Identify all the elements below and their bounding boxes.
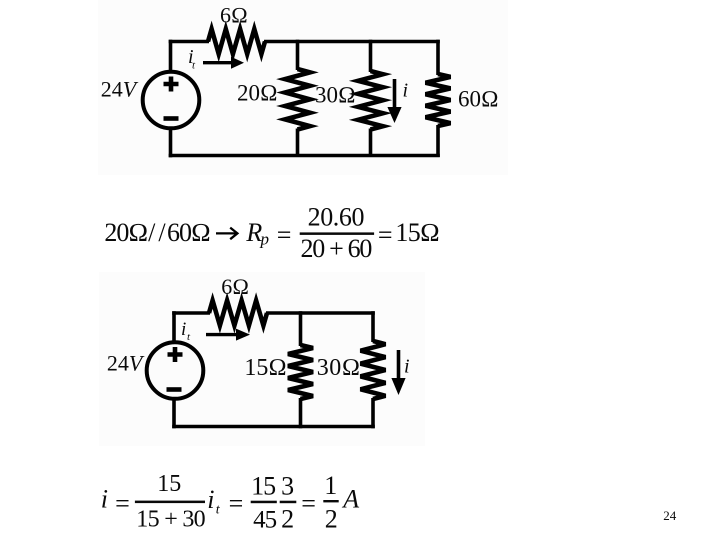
pasted image background (bottom circuit) [99, 272, 425, 446]
plus sign of source (top) [164, 77, 179, 92]
svg-text:t: t [187, 331, 191, 343]
svg-text:20.60: 20.60 [308, 202, 365, 231]
eq2 fraction bar 3 [280, 501, 297, 504]
wire: 15Ω branch lower lead [299, 398, 303, 428]
svg-text:A: A [341, 485, 359, 514]
wire: bottom rail [169, 154, 440, 158]
svg-text:24: 24 [663, 508, 677, 523]
wire: 60Ω branch upper lead [436, 40, 440, 75]
wire: 30Ω branch lower lead (bottom circuit) [371, 398, 375, 428]
eq2 fraction bar 4 [323, 500, 338, 502]
resistor 30Ω (bottom circuit) [361, 341, 386, 399]
voltage source 24V (top circuit) [143, 72, 200, 129]
svg-text:20Ω: 20Ω [237, 81, 278, 106]
wire: top-left vertical from source to top rail [169, 40, 173, 72]
wire: top rail right segment [264, 40, 440, 44]
svg-text:t: t [192, 60, 196, 72]
svg-text:15Ω: 15Ω [395, 218, 439, 247]
svg-text:24V: 24V [101, 77, 139, 102]
svg-text:i: i [207, 485, 214, 514]
svg-text:20Ω: 20Ω [104, 218, 147, 247]
svg-text:6Ω: 6Ω [221, 274, 249, 299]
pasted image background (top circuit) [98, 0, 508, 175]
svg-text:24V: 24V [107, 351, 145, 376]
minus sign of source (top) [164, 116, 179, 121]
svg-text:2: 2 [325, 504, 338, 533]
wire: bottom rail (bottom circuit) [172, 425, 375, 429]
wire: 60Ω branch lower lead [436, 125, 440, 157]
svg-text:15: 15 [157, 471, 181, 497]
svg-text:30Ω: 30Ω [317, 355, 361, 381]
wire: top rail left segment [169, 40, 209, 44]
wire: bottom-left vertical from source to bottom rail [169, 128, 173, 157]
svg-text:p: p [260, 230, 270, 249]
arrow i_t (top circuit) [203, 57, 244, 69]
svg-text:15 + 30: 15 + 30 [136, 507, 205, 533]
resistor 6Ω (bottom circuit) [209, 301, 267, 326]
resistor 60Ω [426, 74, 451, 126]
svg-text:=: = [378, 220, 393, 249]
wire: 20Ω branch upper lead [296, 40, 300, 70]
svg-text:=: = [301, 489, 316, 518]
arrow i (top circuit, downward) [387, 79, 401, 123]
svg-text:15Ω: 15Ω [244, 355, 286, 381]
wire: top rail left segment (bottom circuit) [172, 311, 210, 315]
plus sign of source (bottom) [168, 347, 183, 362]
svg-text:20 + 60: 20 + 60 [301, 234, 373, 263]
svg-text:30Ω: 30Ω [315, 83, 356, 108]
wire: 30Ω branch upper lead (top circuit) [369, 40, 373, 72]
svg-text:i: i [404, 356, 410, 378]
svg-text:t: t [216, 502, 221, 517]
svg-text:15: 15 [251, 472, 275, 501]
eq2 fraction bar 2 [251, 501, 277, 504]
svg-text://: // [148, 218, 168, 247]
wire: bottom-left vertical from source to bottom rail (bottom circuit) [172, 399, 176, 429]
svg-text:60Ω: 60Ω [167, 218, 210, 247]
wire: 20Ω branch lower lead [296, 129, 300, 158]
svg-text:1: 1 [324, 471, 337, 500]
svg-text:45: 45 [253, 507, 277, 534]
svg-text:=: = [229, 489, 244, 518]
minus sign of source (bottom) [167, 387, 182, 392]
svg-text:6Ω: 6Ω [220, 3, 248, 28]
eq1 fraction bar [300, 232, 374, 235]
resistor 15Ω [288, 345, 313, 399]
svg-text:i: i [181, 319, 186, 340]
svg-text:=: = [277, 220, 292, 249]
wire: 15Ω branch upper lead [299, 311, 303, 346]
wire: 30Ω branch upper lead (bottom circuit) [371, 311, 375, 342]
resistor 6Ω (top circuit) [208, 29, 265, 54]
resistor 30Ω (top circuit) [358, 71, 383, 130]
svg-text:2: 2 [281, 505, 294, 534]
arrow i (bottom circuit, downward) [391, 350, 405, 395]
wire: top-left vertical from source to top rail (bottom circuit) [172, 311, 176, 342]
wire: top rail right segment (bottom circuit) [266, 311, 375, 315]
svg-text:i: i [101, 485, 108, 514]
resistor 20Ω [285, 69, 310, 130]
eq2 fraction bar 1 [135, 501, 205, 504]
svg-text:i: i [403, 80, 409, 102]
arrow i_t (bottom circuit) [206, 329, 250, 341]
svg-text:=: = [115, 489, 130, 518]
eq1 arrow → [216, 228, 237, 240]
voltage source 24V (bottom circuit) [147, 342, 204, 399]
svg-text:3: 3 [281, 472, 294, 501]
wire: 30Ω branch lower lead (top circuit) [369, 129, 373, 158]
svg-text:60Ω: 60Ω [458, 87, 499, 112]
